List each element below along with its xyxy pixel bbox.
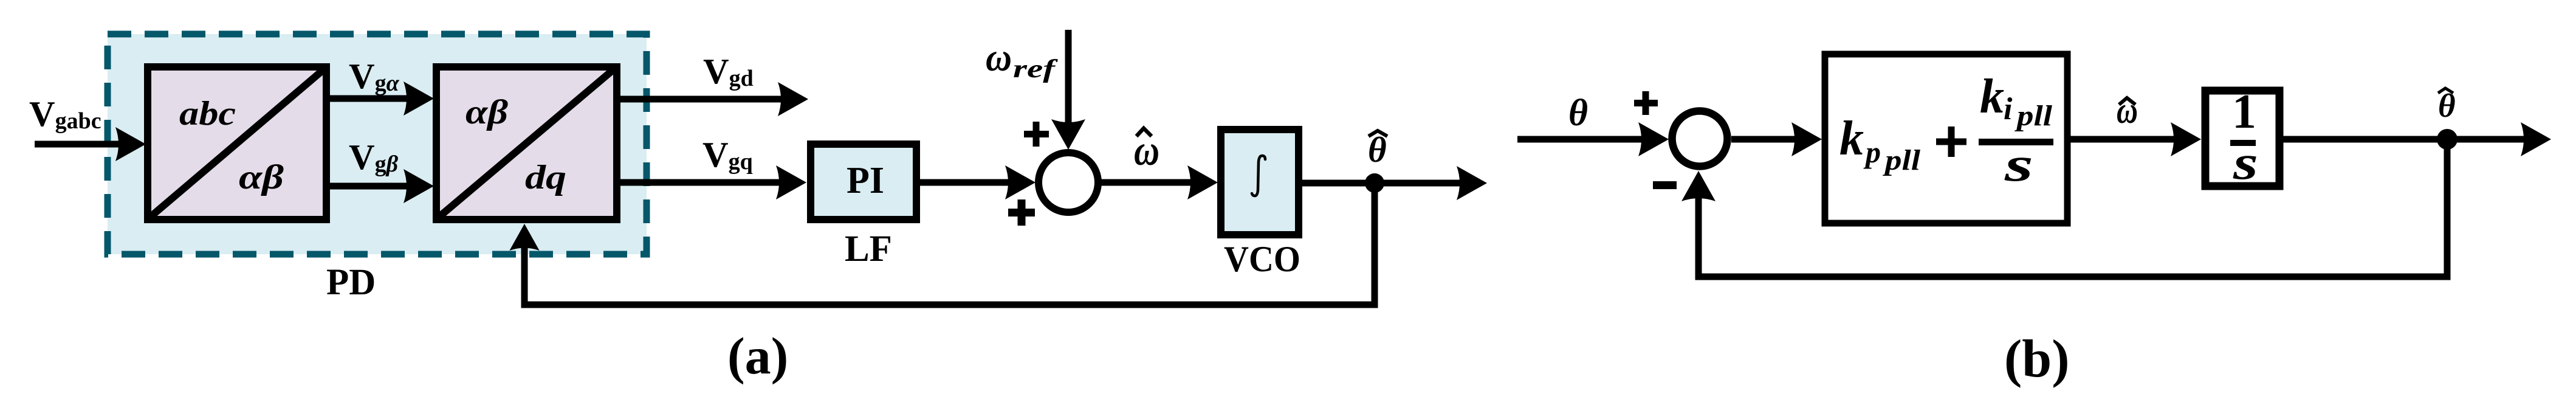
svg-text:(b): (b): [2004, 330, 2070, 389]
svg-text:(a): (a): [727, 327, 788, 385]
svg-text:s: s: [2004, 138, 2033, 192]
svg-text:θ: θ: [1568, 92, 1588, 134]
svg-text:PI: PI: [847, 160, 884, 201]
block PI b: [1825, 54, 2067, 223]
svg-text:PD: PD: [326, 262, 376, 303]
svg-text:pll: pll: [1882, 144, 1920, 176]
PD dashed border: [108, 34, 647, 254]
minus sum b: [1653, 181, 1677, 189]
wire PI to sum: [920, 179, 1014, 186]
node theta hat a: [1365, 173, 1384, 193]
svg-text:abc: abc: [179, 95, 236, 133]
plus left of sum a: [1008, 199, 1035, 226]
block abc/ab: [148, 67, 326, 220]
svg-text:k: k: [1839, 112, 1864, 165]
block ab/dq: [436, 67, 617, 220]
wire Vgb: [330, 183, 414, 190]
wire Vga: [330, 95, 414, 102]
node theta hat b: [2437, 129, 2458, 150]
wire Vgq: [620, 179, 788, 186]
PD dashed box fill: [108, 34, 647, 254]
svg-text:αβ: αβ: [239, 158, 284, 196]
svg-text:VCO: VCO: [1224, 239, 1300, 279]
plus sum b: [1634, 91, 1658, 115]
feedback wire a: [524, 183, 1375, 305]
wire 1/s to out b: [2283, 136, 2530, 143]
summing junction b: [1672, 111, 1728, 167]
wire theta in: [1517, 136, 1649, 143]
wire Vgd output: [620, 96, 789, 103]
svg-text:ref: ref: [1013, 55, 1059, 83]
wire wref down: [1065, 30, 1072, 129]
svg-text:αβ: αβ: [465, 93, 508, 131]
svg-text:i: i: [2004, 92, 2013, 126]
wire VCO to out a: [1302, 180, 1467, 187]
svg-text:dq: dq: [525, 159, 566, 196]
block 1/s: [2205, 85, 2279, 190]
wire sum b to block: [1731, 136, 1802, 143]
block VCO: [1221, 130, 1299, 235]
wire sum a to VCO: [1101, 179, 1198, 186]
block PI: [811, 144, 916, 220]
feedback wire b: [1698, 139, 2447, 277]
wire Vgabc input: [35, 141, 128, 148]
svg-text:1: 1: [2232, 85, 2256, 139]
summing junction a: [1039, 153, 1098, 212]
svg-text:k: k: [1980, 70, 2004, 123]
svg-text:pll: pll: [2014, 100, 2052, 132]
wire block to 1/s: [2070, 136, 2182, 143]
svg-text:LF: LF: [845, 229, 892, 269]
svg-text:p: p: [1863, 135, 1881, 169]
svg-text:ω: ω: [986, 35, 1012, 80]
svg-text:s: s: [2233, 136, 2258, 190]
plus top of sum a: [1024, 122, 1049, 147]
